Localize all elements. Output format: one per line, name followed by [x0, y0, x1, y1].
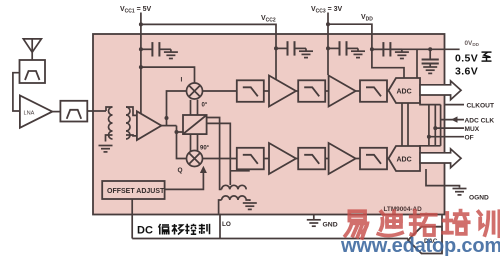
svg-text:DC: DC — [137, 225, 153, 237]
svg-text:OGND: OGND — [469, 195, 489, 202]
wire phase box to LO transformer lower — [207, 123, 231, 185]
wire OF — [429, 136, 464, 138]
wire filter Q1 to amp Q1 — [264, 158, 269, 160]
ground for transformer T2 — [243, 203, 257, 209]
svg-text:LO: LO — [222, 221, 231, 228]
capacitor C4 bypass — [372, 42, 409, 58]
glyph di2 迪 — [378, 211, 402, 235]
svg-text:90°: 90° — [200, 146, 210, 152]
svg-text:ADC CLK: ADC CLK — [465, 117, 495, 124]
node MUX — [433, 126, 437, 130]
wires phase box to mixer Q — [191, 134, 198, 151]
node VCC1 cap junction — [139, 47, 143, 51]
amplifier I1 — [269, 76, 296, 107]
svg-text:OFFSET ADJUST: OFFSET ADJUST — [107, 188, 165, 195]
wire node to phase box — [177, 131, 184, 133]
ADC2 — [389, 146, 421, 171]
capacitor C3 bypass — [328, 41, 365, 57]
amplifier I2 — [329, 76, 356, 107]
supply VCC1 wire — [140, 13, 142, 68]
wire MUX — [435, 127, 464, 129]
wire filter Q3 to ADC2 — [387, 158, 389, 160]
node amp out lower — [175, 130, 179, 134]
svg-text:GND: GND — [323, 222, 338, 229]
node VCC1 top rail — [139, 22, 143, 26]
wire OGND — [426, 169, 460, 188]
node VCC3 top rail — [326, 22, 330, 26]
wire offset adjust to mixer Q — [165, 173, 204, 190]
filter I2 — [298, 80, 325, 102]
svg-text:Q: Q — [178, 167, 183, 174]
wire filter Q2 to amp Q2 — [325, 158, 328, 160]
svg-text:0.5V: 0.5V — [455, 53, 478, 65]
wire amp Q1 to filter Q2 — [296, 158, 298, 160]
glyph zhi4 制 — [199, 224, 210, 234]
node 0VDD junction — [428, 47, 432, 51]
svg-text:OF: OF — [465, 135, 474, 142]
glyph pian 偏 — [159, 224, 170, 235]
wire LO link to filter Q1 — [230, 169, 249, 171]
pre-amplifier A0 — [137, 111, 162, 140]
capacitor C5 0VDD to ground — [422, 49, 439, 73]
wire 0VDD branch to ADC1 — [416, 49, 418, 78]
mixer Q — [187, 151, 203, 167]
svg-text:0°: 0° — [202, 103, 208, 109]
arrowhead into mixer Q — [200, 166, 207, 173]
svg-text:www.edatop.com: www.edatop.com — [340, 235, 500, 257]
glyph xun4 训 — [478, 211, 499, 236]
wire filter I3 to ADC1 — [387, 90, 389, 92]
wire VCC3 to VDD drop — [328, 24, 372, 49]
filter FB2 (bandpass) — [60, 101, 87, 122]
ground for transformer T1 — [99, 146, 113, 152]
DAC hexagon — [408, 227, 442, 254]
bottom chain filter Q1 — [237, 148, 264, 170]
antenna — [23, 39, 41, 60]
wire CLKOUT — [445, 104, 464, 106]
phase splitter box — [183, 115, 207, 134]
node VCC1 branch — [139, 65, 143, 69]
wire VCC1 into pre-amp — [140, 67, 142, 114]
glyph zhi 至 — [482, 52, 492, 61]
bus arrow ADC2 output — [420, 149, 461, 168]
LNA amplifier — [20, 95, 52, 127]
wire phase box to LO transformer upper — [207, 118, 222, 190]
wire filter FB2 to module input — [87, 110, 106, 112]
svg-text:CLKOUT: CLKOUT — [467, 102, 494, 109]
wire VCC1 to VCC2 drop — [141, 24, 276, 48]
clock distribution verticals — [402, 100, 441, 149]
wire LO input — [219, 214, 221, 239]
glyph tuo4 拓 — [411, 211, 436, 235]
glyph kong 控 — [185, 224, 196, 234]
node amp out upper — [165, 116, 169, 120]
amplifier Q2 — [329, 143, 356, 174]
filter Q2 — [298, 148, 325, 170]
wire amp Q2 to filter Q3 — [356, 158, 360, 160]
glyph yi4 易 — [345, 211, 367, 238]
svg-text:ADC: ADC — [397, 89, 412, 96]
filter Q3 — [360, 148, 387, 170]
wire LNA to filter FB2 — [52, 111, 60, 113]
svg-text:ADC: ADC — [397, 157, 412, 164]
wire to mixer Q — [177, 126, 187, 159]
watermark red glyphs 易迪拓培训 — [345, 211, 499, 238]
capacitor C1 bypass — [141, 42, 178, 58]
wire mixer I to filter I1 — [203, 90, 237, 92]
wire VDD feed to ADC1 — [372, 49, 404, 78]
amplifier Q1 — [269, 143, 296, 174]
wire DAC to block — [441, 214, 443, 227]
ground GND bottom — [313, 215, 315, 220]
wire filter I2 to amp I2 — [325, 90, 328, 92]
arrowhead ADC CLK input — [451, 116, 458, 122]
wire ADC CLK — [441, 119, 464, 121]
wire filter I1 to amp I1 — [264, 90, 269, 92]
node OF — [427, 135, 431, 139]
svg-text:I: I — [181, 77, 183, 84]
wire VCC1 branch to mixer I top — [141, 67, 195, 83]
svg-text:LNA: LNA — [24, 111, 35, 117]
ADC1 — [389, 78, 421, 103]
glyph yi 移 — [172, 224, 183, 235]
wire amp I1 to filter I2 — [296, 90, 298, 92]
mixer I — [187, 83, 203, 99]
supply VCC3 wire — [327, 13, 329, 76]
wire amp I2 to filter I3 — [356, 90, 360, 92]
wire mixer Q to filter Q1 — [203, 158, 237, 160]
module block LTM9004 body — [93, 34, 445, 215]
svg-text:MUX: MUX — [465, 126, 480, 133]
ground OGND — [453, 189, 467, 195]
wire filter FB1 to LNA — [13, 73, 20, 111]
top chain filter I1 — [237, 80, 264, 102]
glyph pei2 培 — [443, 211, 469, 234]
node VDD cap junction — [370, 47, 374, 51]
bus arrow ADC1 output — [420, 81, 461, 100]
filter FB1 (bandpass) — [20, 60, 46, 83]
wire 0VDD rail out of block — [372, 48, 460, 50]
filter I3 — [360, 80, 387, 102]
wire offset adjust down — [131, 199, 133, 239]
OFFSET ADJUST box — [102, 181, 164, 199]
node VCC2 cap junction — [274, 46, 278, 50]
wire DC offset bus — [132, 238, 408, 240]
svg-text:3.6V: 3.6V — [455, 66, 478, 78]
LO transformer T2 — [219, 185, 250, 214]
wire VCC2 into block — [275, 48, 277, 79]
wire to mixer I — [167, 91, 187, 126]
capacitor C2 bypass — [276, 41, 313, 57]
input transformer T1 — [106, 107, 137, 142]
node VCC3 cap junction — [326, 46, 330, 50]
wire pre-amp output — [161, 125, 176, 127]
wires phase box to mixer I — [191, 100, 198, 115]
